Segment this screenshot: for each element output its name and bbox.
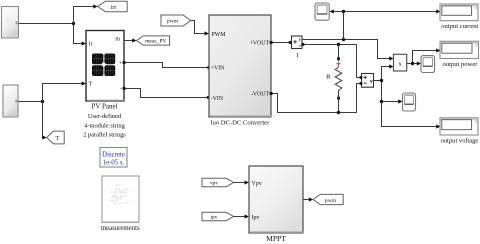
wire R bottom to return <box>338 100 340 113</box>
source block S1 (irradiance input) <box>2 7 19 39</box>
svg-text:MPPT: MPPT <box>266 234 286 243</box>
wire PV m to Goto meas_PV <box>124 40 132 42</box>
port square PV + <box>123 61 126 64</box>
wire PV + to converter +VIN <box>124 63 208 68</box>
svg-text:Ipv: Ipv <box>252 215 260 221</box>
wire junction A down to PV Ir <box>74 24 82 44</box>
svg-text:pwm: pwm <box>167 19 179 25</box>
junction H <box>380 100 383 103</box>
current measurement block i <box>292 36 303 49</box>
svg-text:-VOUT: -VOUT <box>251 91 269 97</box>
port square v + <box>360 76 363 79</box>
svg-text:T: T <box>56 136 60 142</box>
wire v out <box>374 67 437 127</box>
Goto tag meas_PV <box>137 36 170 45</box>
wire i out to product (top) <box>302 40 389 59</box>
white diamond center <box>101 62 106 67</box>
wire -VOUT return path <box>271 84 360 113</box>
svg-text:2 parallel strings: 2 parallel strings <box>83 132 126 139</box>
svg-text:output power: output power <box>443 61 479 68</box>
wire junction A up to Goto irr <box>74 7 94 24</box>
powergui block Discrete <box>100 148 127 168</box>
svg-text:-: - <box>120 86 122 92</box>
junction A <box>72 22 75 25</box>
wire pwm to converter PWM <box>191 21 205 34</box>
resistor R <box>335 57 342 99</box>
wire ipv to MPPT Ipv <box>234 216 245 218</box>
svg-text:luo DC-DC Converter: luo DC-DC Converter <box>211 120 270 127</box>
Goto tag pwm (bottom) <box>313 194 343 204</box>
port square -VOUT <box>270 92 273 95</box>
MPPT block U3 <box>249 166 304 233</box>
wire load node to v+ <box>357 45 360 78</box>
svg-text:I: I <box>296 52 298 59</box>
measurements subsystem block <box>102 176 140 223</box>
From tag vpv <box>202 178 234 186</box>
svg-text:-VIN: -VIN <box>211 96 224 102</box>
Goto tag T <box>47 131 65 144</box>
svg-text:R: R <box>326 74 331 81</box>
source block S2 (temperature input) <box>3 85 18 117</box>
wire junction B up to PV T <box>43 84 82 102</box>
scope power <box>421 56 435 73</box>
DC-DC converter block U2 <box>209 15 272 117</box>
svg-text:User-defined: User-defined <box>88 113 122 120</box>
svg-text:pwm: pwm <box>325 198 337 204</box>
port square +VIN <box>208 66 211 69</box>
wire i minus to load node <box>303 44 357 46</box>
wire vpv to MPPT Vpv <box>234 182 245 184</box>
svg-text:+VIN: +VIN <box>211 65 225 71</box>
svg-text:ipv: ipv <box>211 215 218 221</box>
PV Panel block U1 <box>86 31 125 102</box>
junction G <box>380 79 383 82</box>
wire product out <box>407 51 437 64</box>
svg-text:+VOUT: +VOUT <box>250 40 270 46</box>
svg-text:meas_PV: meas_PV <box>145 39 166 45</box>
svg-text:irr: irr <box>111 5 117 11</box>
scope current (top) <box>315 3 329 20</box>
wire down to R top <box>338 45 340 58</box>
svg-text:measurements: measurements <box>101 225 140 232</box>
display output voltage <box>440 118 478 135</box>
wire S1 to junction <box>19 23 74 25</box>
PV panel solar icon <box>92 54 115 77</box>
wire junction B down to Goto T <box>42 102 44 138</box>
port square +VOUT <box>270 41 273 44</box>
svg-text:PWM: PWM <box>212 32 226 38</box>
product block x <box>394 54 407 71</box>
wire MPPT out to Goto pwm <box>303 199 309 201</box>
Goto tag irr <box>98 1 128 12</box>
wire +VOUT to current measure <box>271 42 290 44</box>
junction I <box>411 62 414 65</box>
display output power <box>440 41 479 58</box>
From tag ipv <box>202 212 234 220</box>
svg-text:4-module string: 4-module string <box>84 122 125 129</box>
svg-text:Discrete: Discrete <box>102 151 125 158</box>
wire PV - to converter -VIN <box>124 89 208 98</box>
svg-text:PV Panel: PV Panel <box>91 103 117 111</box>
svg-text:1e-05 s.: 1e-05 s. <box>103 160 125 167</box>
port square v - <box>360 82 363 85</box>
voltage measurement block v <box>362 74 374 88</box>
port square PV - <box>123 87 126 90</box>
wire junction C up to scope/display current <box>334 12 437 40</box>
port square -VIN <box>207 96 210 99</box>
svg-text:output current: output current <box>441 23 478 30</box>
wire S2 to junction B <box>18 101 43 103</box>
junction B <box>41 100 44 103</box>
port square i - <box>301 43 304 46</box>
junction C <box>342 38 345 41</box>
junction E (load top) <box>337 43 340 46</box>
port square i + <box>289 41 292 44</box>
junction D <box>342 10 345 13</box>
svg-text:Ir: Ir <box>89 42 93 48</box>
scope voltage <box>403 93 416 111</box>
From tag pwm (top) <box>161 15 191 26</box>
display output current <box>440 4 478 21</box>
svg-text:output voltage: output voltage <box>440 138 478 145</box>
svg-text:T: T <box>89 82 93 88</box>
svg-text:Vpv: Vpv <box>252 181 262 187</box>
svg-text:vpv: vpv <box>210 181 218 187</box>
junction F (load bottom) <box>337 111 340 114</box>
svg-text:m: m <box>115 37 120 43</box>
